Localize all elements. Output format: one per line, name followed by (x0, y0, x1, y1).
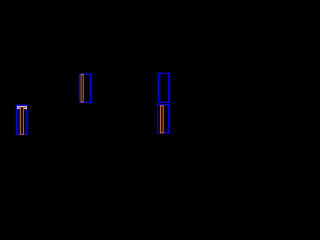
glyph T top bar contour (pink) (18, 107, 27, 109)
bounding box 1 (bottom-left character box, blue) (16, 105, 26, 134)
bounding box 4 (right character box, blue) (158, 105, 169, 133)
glyph l contour (orange, middle box) (81, 74, 83, 102)
glyph l contour (orange, right box) (160, 106, 163, 133)
glyph T stem contour (brown) (20, 107, 23, 134)
bounding box 3 (top-right empty box, blue) (159, 74, 169, 103)
bounding box 2 (middle character box, blue) (79, 74, 90, 102)
